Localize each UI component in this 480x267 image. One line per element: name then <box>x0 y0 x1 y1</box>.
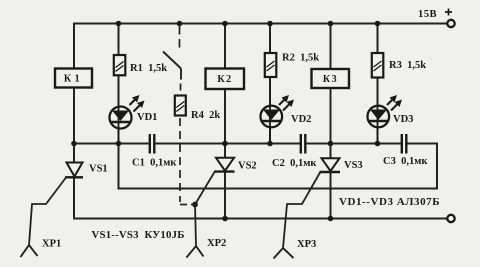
svg-text:VD3: VD3 <box>393 114 413 125</box>
svg-text:VS1--VS3 КУ10ЈБ: VS1--VS3 КУ10ЈБ <box>92 229 185 241</box>
wire K3 column from rail <box>330 24 332 70</box>
resistor R3 <box>372 53 426 78</box>
junction dot VS2 gate node <box>192 202 198 208</box>
svg-text:XP2: XP2 <box>207 238 226 249</box>
wire top supply rail <box>74 23 447 25</box>
wire anode rail C1 to C2 <box>154 143 300 145</box>
svg-text:C2 0,1мк: C2 0,1мк <box>272 158 317 169</box>
connector XP2 <box>187 238 227 258</box>
junction dots top rail <box>116 21 381 27</box>
relay K2 <box>206 69 245 90</box>
svg-text:VS2: VS2 <box>238 161 257 172</box>
relay K1 <box>55 69 92 88</box>
wire K2 column from rail <box>224 24 226 69</box>
capacitor C3 <box>383 134 428 167</box>
svg-text:R3 1,5k: R3 1,5k <box>389 60 426 71</box>
wire C3 return loop left side up to VS1 anode net <box>118 144 120 189</box>
svg-text:VS1: VS1 <box>89 164 108 175</box>
svg-text:VD2: VD2 <box>291 114 311 125</box>
wire VS1 anode stub <box>73 144 75 163</box>
LED VD3 <box>368 95 414 144</box>
thyristor VS2 <box>214 158 257 172</box>
capacitor C2 <box>272 134 317 169</box>
wire C3 to right corner <box>406 143 437 145</box>
wire VS2 cathode to bottom rail <box>224 172 226 219</box>
thyristor VS3 <box>320 158 363 172</box>
switch SB blade <box>163 52 181 80</box>
wire VS2 gate to XP2 <box>195 172 215 246</box>
svg-text:VS3: VS3 <box>344 160 363 171</box>
wire R1/VD1 column <box>118 24 120 144</box>
resistor R2 <box>265 53 319 78</box>
wire VS3 gate to XP3 <box>283 173 320 249</box>
connector XP3 <box>274 239 317 259</box>
svg-text:VD1--VD3 АЛ307Б: VD1--VD3 АЛ307Б <box>339 196 440 208</box>
wire C3 return loop right side <box>436 144 438 189</box>
svg-text:К2: К2 <box>217 74 232 85</box>
wire anode rail VS1 to C1 <box>74 143 150 145</box>
junction dots bottom rail <box>222 216 333 222</box>
wire anode rail C2 to C3 <box>305 143 402 145</box>
svg-text:C1 0,1мк: C1 0,1мк <box>132 158 177 169</box>
resistor R4 <box>175 96 221 122</box>
svg-text:R1 1,5k: R1 1,5k <box>130 63 167 74</box>
svg-text:15В: 15В <box>418 9 437 20</box>
wire R2/VD2 column <box>269 24 271 144</box>
terminal negative <box>447 215 454 222</box>
svg-text:R2 1,5k: R2 1,5k <box>282 53 319 64</box>
svg-text:К3: К3 <box>323 74 338 85</box>
wire VS3 cathode to bottom rail <box>330 172 332 219</box>
svg-text:VD1: VD1 <box>137 112 157 123</box>
wire K2 bottom to VS2 anode <box>224 89 226 158</box>
LED VD1 <box>110 95 158 144</box>
svg-text:XP1: XP1 <box>42 239 61 250</box>
wire VS1 cathode to bottom rail <box>73 177 75 219</box>
junction dots anode rail <box>71 141 380 147</box>
switch SB dash to R4 <box>180 84 182 91</box>
wire K1 column from rail <box>73 24 75 69</box>
svg-text:К1: К1 <box>64 74 83 85</box>
thyristor VS1 <box>65 163 108 178</box>
svg-text:XP3: XP3 <box>297 239 316 250</box>
terminal +15V <box>418 9 455 28</box>
LED VD2 <box>261 95 312 144</box>
resistor R1 <box>114 55 167 75</box>
wire K1 bottom to VS1 anode <box>73 88 75 144</box>
svg-text:C3 0,1мк: C3 0,1мк <box>383 156 428 167</box>
relay K3 <box>312 69 350 88</box>
wire C3 return loop bottom <box>119 188 438 190</box>
wire VS1 gate to XP1 <box>29 178 66 246</box>
wire K3 bottom to VS3 anode <box>330 88 332 158</box>
switch SB dashed lead from rail <box>179 26 181 49</box>
wire R3/VD3 column <box>377 24 379 144</box>
wire dashed R4 to VS2 gate node <box>180 118 194 205</box>
wire bottom rail <box>74 218 447 220</box>
connector XP1 <box>21 239 62 258</box>
capacitor C1 <box>132 134 177 169</box>
svg-text:R4 2k: R4 2k <box>191 110 220 121</box>
